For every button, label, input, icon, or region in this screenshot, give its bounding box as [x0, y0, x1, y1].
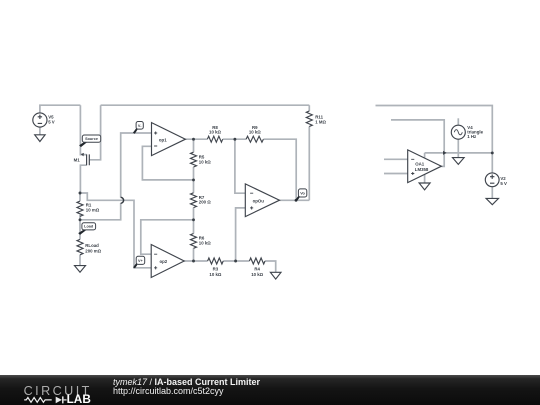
wire V4 ground stem — [457, 153, 459, 158]
node A junction — [192, 178, 195, 181]
wire M1 gate to top bus — [89, 105, 100, 160]
wire R11 leads — [308, 105, 310, 200]
wire OA1 Vee stub to ground — [424, 174, 426, 183]
node V2 rail junction — [491, 151, 494, 154]
CircuitLab logo — [0, 375, 110, 405]
wire V4 bottom stub — [457, 139, 459, 153]
node R3-R4 junction — [234, 260, 237, 263]
voltage source V5 — [33, 113, 55, 127]
svg-text:Vo: Vo — [300, 191, 305, 195]
wire OA1 power pin to output node — [425, 152, 445, 154]
svg-text:opOu: opOu — [253, 199, 265, 204]
resistor R1 — [77, 201, 100, 216]
wire node B feedback to op2 minus — [141, 220, 194, 254]
svg-text:op1: op1 — [159, 138, 167, 143]
resistor R3 — [208, 258, 224, 277]
wire node Source jog to op2 plus input — [80, 193, 151, 268]
svg-text:200 Ω: 200 Ω — [199, 200, 211, 205]
node R1 top junction — [79, 192, 82, 195]
node B junction — [192, 218, 195, 221]
svg-text:RLoad: RLoad — [85, 243, 99, 248]
wire opOu minus input to R8-R9 node — [235, 139, 245, 193]
wire op2 output to R3 — [184, 260, 207, 262]
node R1 bottom junction — [79, 218, 82, 221]
wire V5 ground stem — [39, 127, 41, 135]
wire OA1 Vcc stub — [424, 153, 426, 158]
op-amp OA1 LM358 — [408, 150, 442, 183]
wire R1 top lead — [79, 193, 81, 201]
flag Source — [79, 135, 101, 147]
wire RLoad leads — [79, 220, 81, 266]
wire R5 leads — [193, 139, 195, 180]
voltage source V4 triangle generator — [451, 125, 483, 139]
wire output node to V2 rail — [444, 152, 492, 154]
ground (below V4) — [453, 158, 465, 165]
wire node A feedback to op1 minus — [142, 146, 193, 180]
svg-text:LAB: LAB — [67, 392, 91, 405]
flag V+ — [133, 256, 145, 268]
CircuitLab footer bar — [0, 375, 540, 405]
resistor R5 — [191, 152, 212, 167]
wire M1 drain lead — [80, 165, 86, 193]
ground (below OA1) — [419, 183, 430, 190]
wire opOu output — [280, 199, 310, 201]
resistor R7 — [191, 193, 212, 208]
wire opOu plus input to R3-R4 node — [236, 208, 246, 261]
wire M1 source lead — [80, 105, 86, 154]
wire right circuit top rail to V2 — [376, 106, 493, 173]
svg-text:10 kΩ: 10 kΩ — [199, 240, 211, 245]
flag Load — [78, 223, 95, 235]
svg-text:1 MΩ: 1 MΩ — [315, 120, 326, 125]
wire V5 top to M1 source — [40, 105, 81, 113]
wire R1 bottom lead — [79, 215, 81, 220]
ground (below RLoad) — [75, 266, 86, 273]
svg-text:Source: Source — [85, 137, 98, 141]
svg-text:LM358: LM358 — [415, 167, 429, 172]
wire node Load to op1 plus input (with hop over) — [80, 203, 121, 220]
svg-text:5 V: 5 V — [500, 181, 507, 186]
wire op1 output to R8 — [185, 138, 207, 140]
wire V2 bottom stub to ground — [491, 187, 493, 199]
op-amp opOu — [245, 184, 279, 217]
resistor RLoad — [77, 239, 102, 254]
wire OA1 minus stub — [384, 158, 408, 160]
wire R8 to R9 — [223, 138, 246, 140]
svg-text:10 kΩ: 10 kΩ — [209, 272, 221, 277]
resistor R4 — [249, 258, 265, 277]
svg-text:10 kΩ: 10 kΩ — [209, 130, 221, 135]
ground (below V2) — [486, 198, 498, 204]
ground (right of R4) — [270, 272, 281, 279]
op-amp op2 — [151, 245, 184, 278]
node op1 output junction — [192, 138, 195, 141]
wire hop arc at op1+ crossing — [121, 197, 124, 203]
svg-text:5 V: 5 V — [48, 119, 55, 124]
node op2 output junction — [192, 260, 195, 263]
wire R6 leads — [193, 220, 195, 261]
resistor R8 — [207, 125, 222, 142]
wire R4 to ground — [265, 261, 276, 272]
op-amp op1 — [152, 123, 186, 156]
wire R7 leads — [193, 180, 195, 220]
transistor M1 — [74, 153, 90, 165]
wire terminal arrow at OA1 output node — [443, 151, 447, 155]
svg-text:R3: R3 — [213, 267, 219, 272]
svg-text:200 mΩ: 200 mΩ — [85, 249, 101, 254]
svg-text:op2: op2 — [160, 259, 168, 264]
svg-text:1 Hz: 1 Hz — [467, 134, 477, 139]
node Vo junction — [295, 199, 298, 202]
wire top bus to R11 — [101, 104, 310, 106]
flag V- — [133, 122, 143, 134]
svg-text:M1: M1 — [74, 158, 81, 163]
node R8-R9 junction — [233, 138, 236, 141]
flag Vo — [295, 189, 307, 202]
svg-text:10 kΩ: 10 kΩ — [251, 272, 263, 277]
resistor R11 — [306, 111, 326, 126]
svg-text:10 kΩ: 10 kΩ — [249, 130, 261, 135]
resistor R9 — [246, 125, 263, 142]
ground (below V5) — [35, 135, 45, 142]
svg-text:Load: Load — [84, 225, 94, 229]
svg-text:10 mΩ: 10 mΩ — [86, 208, 100, 213]
svg-text:10 kΩ: 10 kΩ — [199, 159, 211, 164]
wire OA1 feedback loop — [391, 120, 444, 166]
wire OA1 plus stub — [384, 173, 408, 175]
resistor R6 — [191, 234, 212, 249]
wire V4 top stub — [457, 118, 459, 125]
svg-text:R4: R4 — [254, 267, 260, 272]
svg-text:V+: V+ — [138, 259, 144, 263]
svg-text:OA1: OA1 — [415, 161, 425, 166]
wire R3 to R4 — [223, 260, 249, 262]
voltage source V2 — [485, 173, 507, 187]
wire R9 to opOu output node — [263, 139, 296, 200]
